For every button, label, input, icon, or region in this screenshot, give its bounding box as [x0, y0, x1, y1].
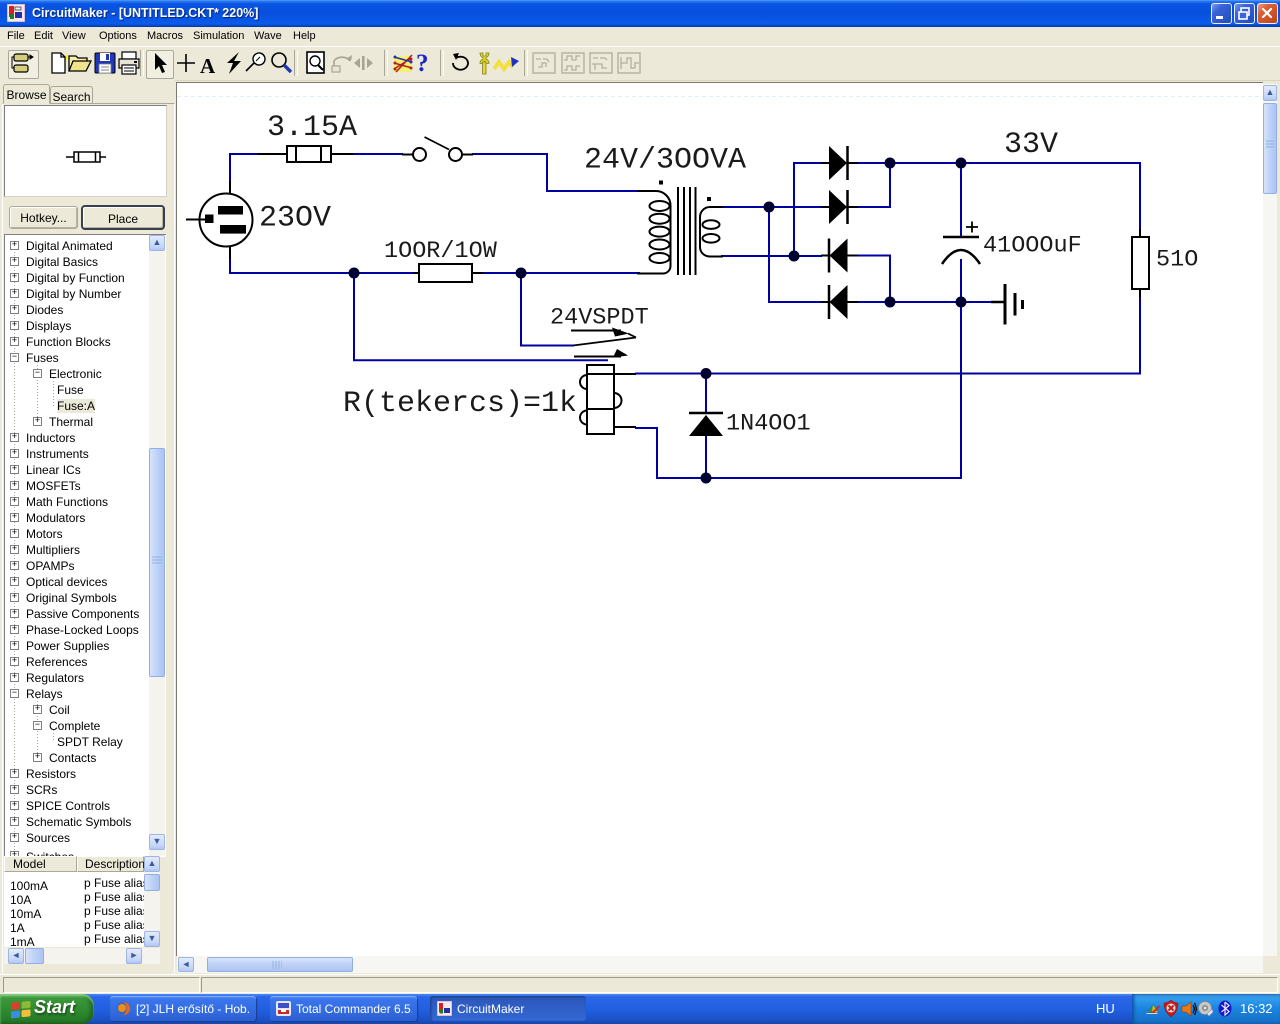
tray icon: bluetooth — [1218, 1000, 1232, 1017]
lightning — [220, 49, 248, 77]
wire 1N4001 top lead — [705, 374, 707, 413]
wire ground rail down to bottom return — [636, 302, 961, 478]
svg-text:1OOR/1OW: 1OOR/1OW — [384, 238, 498, 265]
wire 510 bottom to relay coil top rail — [636, 289, 1140, 374]
wire junction1 to relay lower contact — [354, 273, 607, 360]
wires icon — [390, 49, 418, 77]
splitter arrows (gray) — [349, 49, 377, 77]
tray icon: speaker orange — [1181, 1001, 1197, 1017]
transformer T1 primary polarity dot — [659, 181, 663, 185]
positive output rail 33V — [856, 163, 1140, 229]
open — [66, 49, 94, 77]
ground earth symbol — [991, 284, 1023, 325]
task button 3: circuitmaker (active) — [430, 996, 586, 1021]
svg-text:R(tekercs)=1k: R(tekercs)=1k — [343, 387, 577, 421]
wire D3 anode down to ground rail — [856, 256, 890, 303]
wire fuse to switch — [353, 153, 402, 155]
wire switch to transformer primary top — [473, 154, 639, 191]
svg-text:51O: 51O — [1156, 247, 1198, 274]
wire capacitor minus lead — [960, 260, 962, 302]
wire junction2 to relay pole — [521, 273, 573, 346]
svg-text:3.15A: 3.15A — [267, 111, 357, 145]
diode D5 1N4001 — [689, 413, 723, 436]
diode D2 — [821, 190, 858, 224]
svg-text:41OOOuF: 41OOOuF — [983, 233, 1082, 260]
wire secondary top to diode D2 anode — [722, 206, 821, 208]
tray icon: shield — [1163, 1000, 1179, 1017]
wrench (yellow) — [470, 49, 498, 77]
junction node dots — [349, 158, 967, 484]
text labels — [259, 111, 1198, 438]
magnifier — [266, 49, 294, 77]
resistor R1 100R/10W — [413, 264, 483, 282]
svg-text:1N4OO1: 1N4OO1 — [726, 411, 811, 438]
resistor R2 510 — [1132, 229, 1149, 297]
relay K1 SPDT lower contact — [574, 349, 628, 358]
wire 1N4001 bottom lead — [705, 435, 707, 478]
print — [115, 49, 143, 77]
svg-text:24VSPDT: 24VSPDT — [550, 305, 649, 332]
switch S1 — [402, 137, 473, 161]
relay K1 coil R(tekercs)=1k — [580, 365, 636, 434]
svg-text:24V/3OOVA: 24V/3OOVA — [584, 144, 746, 178]
AC source V1 230V — [186, 181, 253, 259]
undo circular arrow — [446, 49, 474, 77]
browse toggle button (pressed) — [8, 50, 39, 79]
capacitor C1 41000uF plus plate — [942, 222, 980, 265]
ground rail from D4 to earth — [856, 301, 992, 303]
new — [44, 49, 72, 77]
probe — [243, 49, 271, 77]
text A — [200, 54, 215, 79]
relay K1 pole lever — [573, 338, 636, 346]
diode D4 — [821, 285, 858, 319]
wire D2 cathode up to positive rail — [856, 163, 890, 207]
help ? — [416, 50, 429, 78]
tray area — [1132, 994, 1280, 1024]
transformer T1 secondary winding — [700, 207, 723, 257]
zigzag blue arrow — [492, 49, 520, 77]
preview — [4, 105, 167, 197]
plus — [172, 49, 200, 77]
wire from source top to fuse — [230, 154, 257, 186]
fuse F1 3.15A — [257, 146, 353, 162]
transformer T1 secondary polarity dot — [707, 197, 711, 201]
transformer T1 core — [678, 187, 696, 275]
wire secondary bottom to diode D3 — [722, 255, 821, 257]
relay K1 SPDT upper contact — [571, 328, 636, 338]
rotate (gray) — [328, 49, 356, 77]
task button 2: total commander — [270, 996, 417, 1021]
tree — [4, 234, 166, 857]
tree scrollbar — [149, 235, 165, 856]
wire capacitor plus lead — [960, 163, 962, 236]
wire secondary top node down to diode D4 — [769, 207, 821, 302]
wire source bottom to transformer primary bottom (node A rail) — [230, 258, 639, 273]
start button — [0, 994, 94, 1024]
wire secondary bottom node up to diode D1 anode — [794, 163, 821, 256]
model table — [0, 0, 1280, 1]
task button 1: firefox — [110, 996, 256, 1021]
diode D3 — [821, 239, 858, 273]
tray HU — [1096, 1001, 1115, 1016]
save — [91, 49, 119, 77]
page boundary dashed line — [177, 96, 1263, 98]
tray icon: gray speaker/volume — [1197, 1000, 1214, 1017]
tray icon: display — [1145, 1001, 1161, 1017]
gray digital buttons — [530, 49, 558, 77]
arrow tool (pressed) — [146, 50, 174, 79]
diode D1 — [821, 146, 858, 180]
svg-text:23OV: 23OV — [259, 202, 331, 236]
doc magnifier — [303, 49, 331, 77]
transformer T1 primary winding — [637, 191, 671, 274]
svg-text:33V: 33V — [1004, 128, 1058, 162]
